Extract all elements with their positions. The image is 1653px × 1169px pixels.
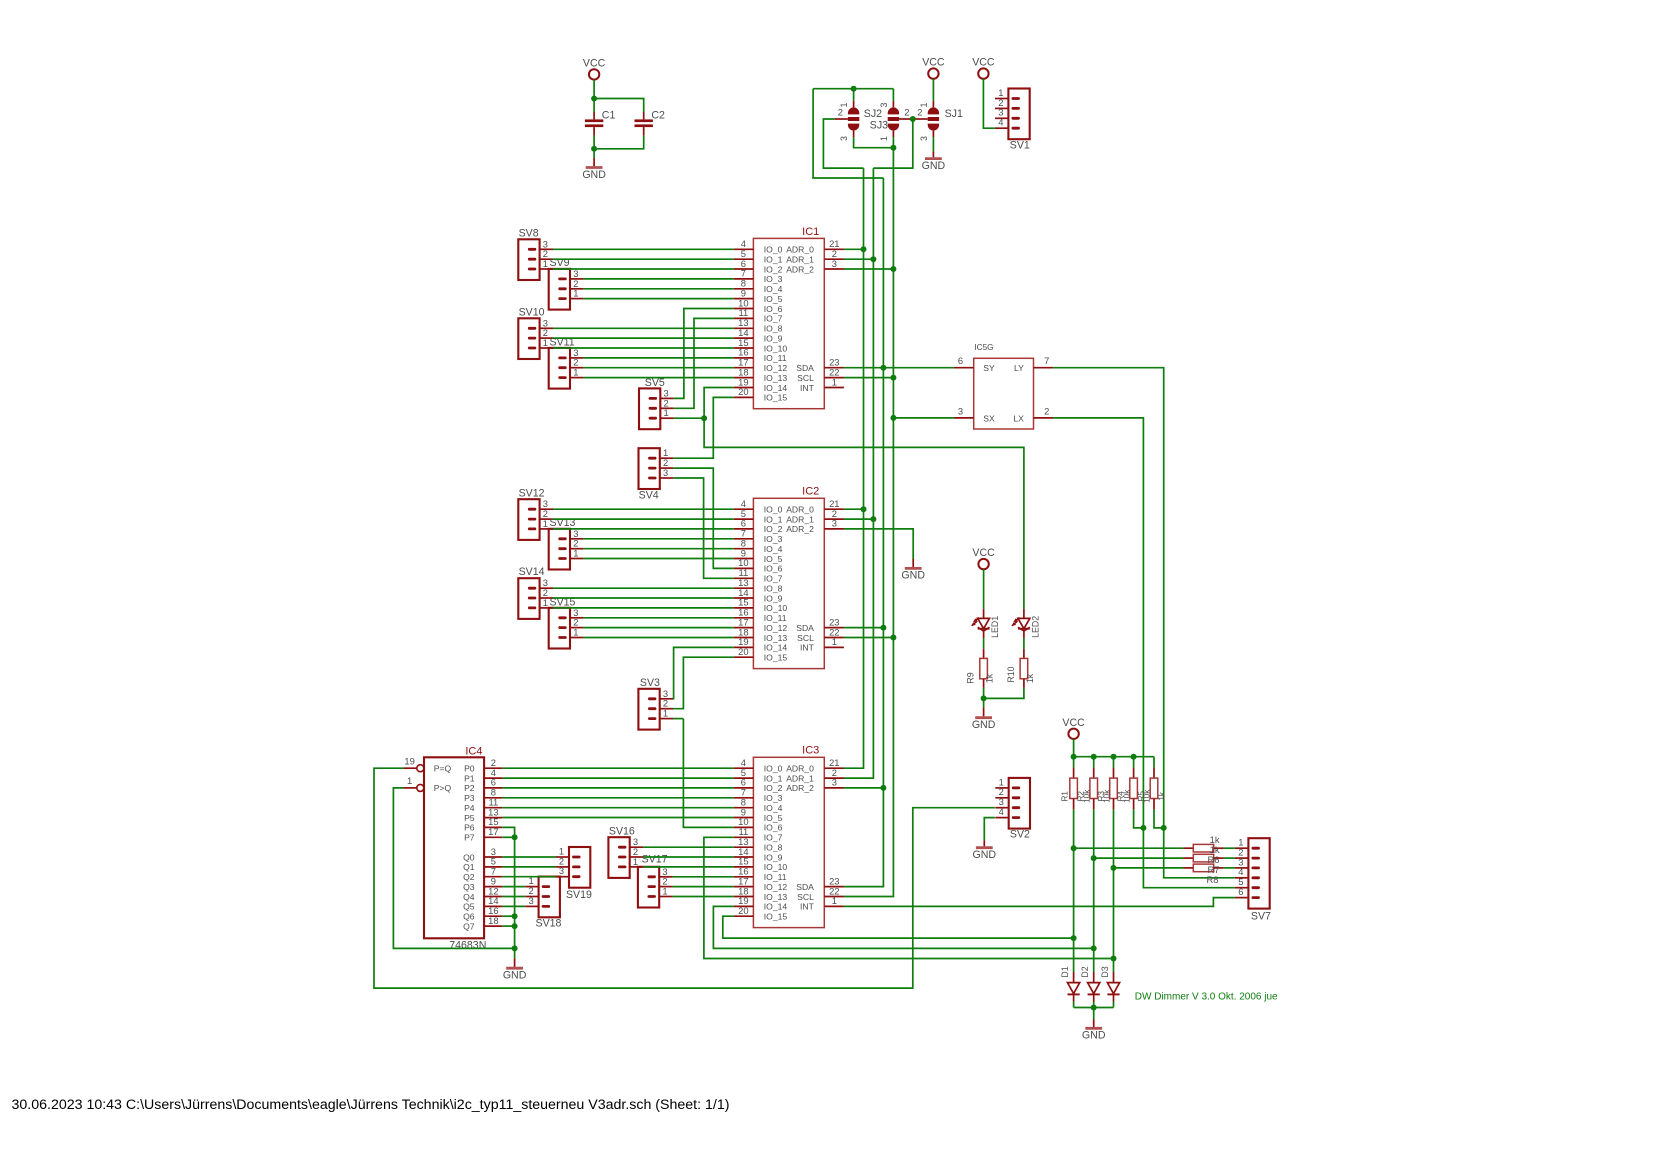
svg-text:19: 19: [404, 756, 414, 767]
svg-text:IO_14: IO_14: [764, 902, 788, 912]
svg-text:VCC: VCC: [583, 57, 606, 69]
svg-text:3: 3: [879, 102, 889, 107]
svg-text:IO_10: IO_10: [764, 603, 788, 613]
svg-text:INT: INT: [800, 902, 815, 912]
svg-text:ADR_0: ADR_0: [786, 505, 814, 515]
svg-text:SV2: SV2: [1010, 829, 1030, 841]
svg-text:2: 2: [1044, 405, 1049, 416]
svg-text:2: 2: [904, 107, 909, 118]
svg-text:IO_11: IO_11: [764, 353, 787, 363]
svg-text:ADR_1: ADR_1: [786, 773, 814, 783]
svg-text:Q3: Q3: [463, 882, 475, 892]
svg-text:Q4: Q4: [463, 892, 475, 902]
svg-text:1: 1: [573, 367, 578, 378]
svg-text:IO_0: IO_0: [764, 245, 783, 255]
svg-text:GND: GND: [901, 570, 925, 582]
svg-text:IO_13: IO_13: [764, 373, 788, 383]
svg-text:3: 3: [832, 777, 837, 788]
svg-text:DW Dimmer V 3.0 Okt. 2006 jue: DW Dimmer V 3.0 Okt. 2006 jue: [1135, 992, 1278, 1003]
svg-text:3: 3: [663, 467, 668, 478]
svg-text:IO_1: IO_1: [764, 773, 783, 783]
svg-text:P4: P4: [464, 803, 475, 813]
svg-text:SV17: SV17: [642, 854, 668, 866]
svg-text:3: 3: [559, 865, 564, 876]
svg-text:ADR_1: ADR_1: [786, 255, 814, 265]
svg-text:SV12: SV12: [519, 487, 545, 499]
svg-text:Q5: Q5: [463, 902, 475, 912]
svg-text:IO_2: IO_2: [764, 524, 783, 534]
svg-text:1: 1: [879, 136, 889, 141]
svg-text:P=Q: P=Q: [434, 764, 452, 774]
svg-text:IO_3: IO_3: [764, 793, 783, 803]
svg-text:Q6: Q6: [463, 912, 475, 922]
svg-text:P0: P0: [464, 764, 475, 774]
svg-text:ADR_0: ADR_0: [786, 764, 814, 774]
svg-text:GND: GND: [973, 849, 997, 861]
svg-text:1: 1: [543, 337, 548, 348]
svg-text:3: 3: [958, 405, 963, 416]
svg-text:1: 1: [662, 886, 667, 897]
svg-text:LED1: LED1: [990, 616, 1000, 638]
svg-text:P3: P3: [464, 793, 475, 803]
svg-text:VCC: VCC: [1062, 717, 1085, 729]
svg-text:2: 2: [917, 107, 922, 118]
svg-text:ADR_2: ADR_2: [786, 524, 814, 534]
svg-text:SV4: SV4: [639, 490, 659, 502]
svg-text:3: 3: [919, 136, 929, 141]
svg-text:SV18: SV18: [536, 917, 562, 929]
svg-text:1: 1: [543, 597, 548, 608]
svg-text:4: 4: [998, 117, 1003, 128]
svg-text:SV5: SV5: [645, 377, 665, 389]
svg-text:10k: 10k: [1083, 789, 1092, 803]
svg-text:R1: R1: [1061, 791, 1070, 802]
svg-text:Q7: Q7: [463, 921, 475, 931]
svg-text:20: 20: [738, 386, 748, 397]
svg-text:ADR_2: ADR_2: [786, 264, 814, 274]
svg-text:1: 1: [407, 775, 412, 786]
svg-text:IO_3: IO_3: [764, 274, 783, 284]
svg-text:P2: P2: [464, 783, 475, 793]
svg-text:1k: 1k: [1157, 791, 1166, 801]
svg-text:IO_13: IO_13: [764, 633, 788, 643]
svg-text:IO_12: IO_12: [764, 363, 788, 373]
svg-text:IO_1: IO_1: [764, 514, 783, 524]
svg-text:R9: R9: [966, 672, 976, 683]
svg-text:LX: LX: [1013, 413, 1024, 423]
svg-text:Q2: Q2: [463, 872, 475, 882]
svg-text:18: 18: [488, 915, 498, 926]
svg-text:1: 1: [573, 288, 578, 299]
svg-text:P7: P7: [464, 833, 475, 843]
svg-text:Q0: Q0: [463, 852, 475, 862]
svg-text:D2: D2: [1080, 966, 1090, 977]
svg-text:SDA: SDA: [796, 623, 814, 633]
svg-text:SY: SY: [983, 363, 995, 373]
svg-text:6: 6: [1238, 886, 1243, 897]
svg-text:SV1: SV1: [1010, 140, 1030, 152]
svg-text:IO_15: IO_15: [764, 393, 788, 403]
svg-text:IO_10: IO_10: [764, 343, 788, 353]
svg-text:R8: R8: [1207, 874, 1219, 885]
svg-text:IO_5: IO_5: [764, 554, 783, 564]
svg-text:IO_1: IO_1: [764, 255, 783, 265]
svg-text:IO_10: IO_10: [764, 862, 788, 872]
svg-text:Q1: Q1: [463, 862, 475, 872]
svg-text:SJ3: SJ3: [870, 120, 888, 132]
svg-text:3: 3: [832, 518, 837, 529]
svg-text:1: 1: [543, 258, 548, 269]
svg-text:P6: P6: [464, 823, 475, 833]
svg-text:IO_2: IO_2: [764, 264, 783, 274]
svg-text:INT: INT: [800, 383, 815, 393]
svg-text:10k: 10k: [1123, 789, 1132, 803]
svg-text:IO_8: IO_8: [764, 584, 783, 594]
svg-text:IC5G: IC5G: [974, 343, 993, 352]
svg-text:P1: P1: [464, 773, 475, 783]
svg-text:IO_4: IO_4: [764, 544, 783, 554]
svg-text:17: 17: [488, 826, 498, 837]
svg-text:GND: GND: [582, 169, 606, 181]
svg-text:SX: SX: [983, 413, 995, 423]
svg-text:IO_14: IO_14: [764, 383, 788, 393]
svg-text:INT: INT: [800, 643, 815, 653]
svg-text:IC4: IC4: [465, 745, 482, 757]
svg-text:1: 1: [663, 407, 668, 418]
svg-text:ADR_2: ADR_2: [786, 783, 814, 793]
svg-text:IO_7: IO_7: [764, 833, 783, 843]
svg-text:IO_4: IO_4: [764, 284, 783, 294]
svg-text:IO_9: IO_9: [764, 333, 783, 343]
svg-text:IO_9: IO_9: [764, 593, 783, 603]
svg-text:3: 3: [528, 895, 533, 906]
svg-text:GND: GND: [1082, 1030, 1106, 1042]
svg-text:2: 2: [838, 107, 843, 118]
svg-text:20: 20: [738, 905, 748, 916]
svg-text:1: 1: [543, 518, 548, 529]
svg-text:3: 3: [832, 258, 837, 269]
svg-text:IO_2: IO_2: [764, 783, 783, 793]
svg-text:IC2: IC2: [802, 486, 819, 498]
svg-text:VCC: VCC: [972, 57, 995, 69]
svg-text:IO_12: IO_12: [764, 882, 788, 892]
svg-text:IO_6: IO_6: [764, 823, 783, 833]
svg-text:1: 1: [633, 856, 638, 867]
svg-text:VCC: VCC: [922, 57, 945, 69]
svg-text:GND: GND: [972, 719, 996, 731]
svg-text:IO_15: IO_15: [764, 912, 788, 922]
svg-text:IO_7: IO_7: [764, 574, 783, 584]
svg-text:GND: GND: [503, 970, 527, 982]
svg-text:IO_8: IO_8: [764, 843, 783, 853]
svg-text:SDA: SDA: [796, 363, 814, 373]
svg-text:7: 7: [1044, 355, 1049, 366]
svg-text:P5: P5: [464, 813, 475, 823]
svg-text:1: 1: [832, 636, 837, 647]
svg-text:IO_15: IO_15: [764, 653, 788, 663]
svg-text:SCL: SCL: [797, 892, 814, 902]
svg-text:1k: 1k: [985, 673, 995, 683]
svg-text:3: 3: [839, 136, 849, 141]
svg-text:IC1: IC1: [802, 226, 819, 238]
svg-text:IO_12: IO_12: [764, 623, 788, 633]
svg-text:ADR_1: ADR_1: [786, 514, 814, 524]
svg-text:SV14: SV14: [519, 566, 545, 578]
svg-text:IO_11: IO_11: [764, 872, 787, 882]
svg-text:SV19: SV19: [566, 889, 592, 901]
svg-text:30.06.2023 10:43 C:\Users\Jür: 30.06.2023 10:43 C:\Users\Jürrens\Docume…: [12, 1097, 730, 1113]
svg-text:LY: LY: [1014, 363, 1024, 373]
svg-text:SDA: SDA: [796, 882, 814, 892]
svg-text:74683N: 74683N: [449, 939, 486, 951]
svg-text:1: 1: [832, 376, 837, 387]
svg-text:1: 1: [573, 548, 578, 559]
svg-text:IO_14: IO_14: [764, 643, 788, 653]
svg-text:P>Q: P>Q: [434, 783, 452, 793]
svg-text:4: 4: [999, 806, 1004, 817]
svg-text:SJ2: SJ2: [864, 108, 882, 120]
svg-text:10k: 10k: [1143, 789, 1152, 803]
svg-text:SCL: SCL: [797, 633, 814, 643]
svg-text:SV16: SV16: [609, 825, 635, 837]
svg-text:IO_13: IO_13: [764, 892, 788, 902]
svg-text:IO_6: IO_6: [764, 304, 783, 314]
svg-text:1: 1: [573, 627, 578, 638]
svg-text:IO_9: IO_9: [764, 852, 783, 862]
svg-text:SV3: SV3: [640, 677, 660, 689]
svg-text:C2: C2: [651, 109, 665, 121]
svg-text:SV10: SV10: [519, 306, 545, 318]
svg-text:D3: D3: [1100, 966, 1110, 977]
svg-text:ADR_0: ADR_0: [786, 245, 814, 255]
svg-text:SV8: SV8: [519, 227, 539, 239]
svg-text:20: 20: [738, 646, 748, 657]
svg-text:SV7: SV7: [1251, 911, 1271, 923]
svg-text:6: 6: [958, 355, 963, 366]
svg-text:VCC: VCC: [972, 547, 995, 559]
svg-text:SJ1: SJ1: [945, 108, 963, 120]
svg-text:SCL: SCL: [797, 373, 814, 383]
svg-text:D1: D1: [1060, 966, 1070, 977]
svg-text:IO_7: IO_7: [764, 314, 783, 324]
svg-text:1: 1: [832, 895, 837, 906]
svg-text:IO_8: IO_8: [764, 324, 783, 334]
svg-text:GND: GND: [922, 160, 946, 172]
svg-text:IO_5: IO_5: [764, 813, 783, 823]
svg-text:IO_5: IO_5: [764, 294, 783, 304]
svg-text:1k: 1k: [1025, 673, 1035, 683]
svg-text:IO_6: IO_6: [764, 564, 783, 574]
svg-text:R10: R10: [1006, 666, 1016, 682]
svg-text:IO_0: IO_0: [764, 505, 783, 515]
svg-text:1: 1: [663, 708, 668, 719]
svg-text:LED2: LED2: [1030, 616, 1040, 638]
svg-text:10k: 10k: [1103, 789, 1112, 803]
svg-text:IO_0: IO_0: [764, 764, 783, 774]
svg-text:IO_3: IO_3: [764, 534, 783, 544]
svg-text:IC3: IC3: [802, 745, 819, 757]
svg-text:IO_4: IO_4: [764, 803, 783, 813]
svg-text:IO_11: IO_11: [764, 613, 787, 623]
svg-text:C1: C1: [602, 109, 616, 121]
